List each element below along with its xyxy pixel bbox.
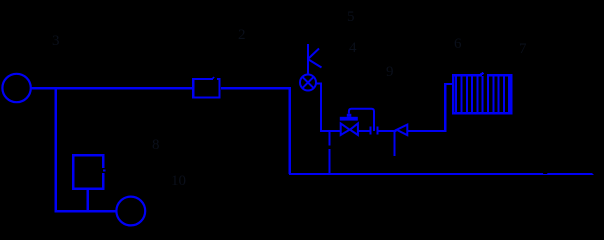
valve actuator bar bbox=[340, 114, 358, 121]
air-vent valve 4 (circle with X) bbox=[300, 75, 316, 91]
svg-text:9: 9 bbox=[386, 64, 394, 80]
wire: filter to down-corner bbox=[221, 87, 291, 90]
svg-text:6: 6 bbox=[454, 36, 462, 52]
wire: main supply line boiler to filter bbox=[31, 87, 192, 90]
flange bar left bbox=[369, 127, 371, 135]
svg-text:10: 10 bbox=[171, 173, 186, 189]
wire: stub down from check valve bbox=[394, 131, 396, 156]
svg-text:5: 5 bbox=[347, 9, 355, 25]
wire: flange to check valve bbox=[378, 130, 397, 132]
node T-junction at x=55 bbox=[54, 88, 57, 212]
thermostatic valve 5 (bowtie) bbox=[341, 123, 358, 135]
wire: riser up to radiator bbox=[445, 84, 453, 131]
check valve 9 (left-pointing triangle) bbox=[397, 125, 408, 136]
svg-text:7: 7 bbox=[519, 41, 527, 57]
flange bar right bbox=[376, 127, 378, 135]
wire: vent to drop pipe bbox=[317, 84, 341, 132]
wire: vertical drop at x=290 bbox=[289, 87, 292, 174]
filter/device 2 (rectangle with top notch) bbox=[193, 77, 219, 97]
wire: check valve to riser bbox=[407, 130, 446, 132]
svg-text:3: 3 bbox=[52, 33, 60, 49]
capillary tube loop to sensor bbox=[349, 109, 374, 131]
wire: tank stem down bbox=[86, 190, 89, 211]
wire: bottom-left horizontal to pump bbox=[55, 210, 117, 213]
boiler K1 (left circle) bbox=[2, 74, 30, 102]
valve handle K symbol bbox=[308, 44, 322, 74]
svg-text:4: 4 bbox=[349, 40, 357, 56]
svg-text:2: 2 bbox=[238, 27, 246, 43]
wire: dashed drain to return line bbox=[329, 131, 331, 173]
wire: long bottom return line bbox=[289, 173, 594, 175]
pump 10 (bottom circle) bbox=[116, 197, 145, 226]
svg-text:8: 8 bbox=[152, 137, 160, 153]
wire: pipe bowtie to flange bbox=[358, 130, 370, 132]
radiator 6 (finned rectangle) bbox=[453, 73, 511, 113]
expansion tank 8 (box) bbox=[73, 155, 105, 188]
